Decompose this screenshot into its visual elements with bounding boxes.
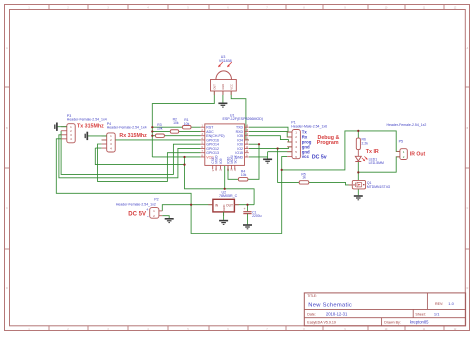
wire TXD to P1 Tx	[249, 127, 292, 132]
svg-text:+: +	[244, 207, 246, 211]
wire P3 pin4 to 5V node	[56, 139, 191, 205]
header P2 DC input	[116, 198, 162, 219]
svg-text:1.0: 1.0	[448, 301, 454, 306]
regulator U2	[208, 190, 239, 216]
wire 5V to P1 vcc pin	[282, 157, 287, 170]
wire P3 pin3 to GPIO12	[59, 135, 201, 178]
ESP module U1	[201, 124, 249, 171]
resistor R5	[299, 172, 309, 184]
svg-text:2.2k: 2.2k	[362, 142, 369, 146]
header P3 Tx module	[61, 114, 107, 143]
wire IO5 to P1 prog	[249, 136, 292, 142]
svg-text:Header-Male-2.54_1x6: Header-Male-2.54_1x6	[291, 124, 327, 128]
label Tx 315Mhz	[77, 123, 104, 129]
transistor Q1	[349, 180, 391, 189]
svg-text:IO9: IO9	[219, 158, 223, 163]
IR receiver U3 VS1838	[211, 71, 237, 95]
svg-text:VS1838: VS1838	[219, 59, 232, 63]
svg-text:1/1: 1/1	[434, 311, 440, 316]
svg-text:DC 5V: DC 5V	[128, 211, 146, 217]
wire P3 pin2 to GPIO14	[61, 131, 201, 175]
title block	[304, 293, 465, 326]
ground at P3 pin1	[55, 123, 57, 131]
wire R2 to ADC	[152, 130, 200, 132]
P1 net labels	[302, 130, 327, 161]
U1 right pin labels	[235, 126, 243, 160]
wire R6 top	[357, 131, 359, 138]
svg-text:GND: GND	[222, 205, 226, 211]
svg-text:Drawn By:: Drawn By:	[384, 321, 401, 325]
wire R3 to EN	[152, 135, 200, 137]
wire 5V loop to IR section	[191, 170, 282, 234]
svg-text:2200u: 2200u	[252, 214, 262, 218]
wire 5V rail to IR Out header	[282, 131, 400, 170]
wire P2 pin2 to ground	[162, 216, 169, 219]
svg-text:Header-Female-2.54_1x2: Header-Female-2.54_1x2	[387, 123, 427, 127]
wire VCC branch down to regulator output	[185, 157, 255, 205]
header P1 debug	[287, 121, 327, 159]
svg-text:2018-12-31: 2018-12-31	[326, 311, 348, 316]
U1 left pin labels	[206, 126, 224, 160]
svg-text:TITLE:: TITLE:	[307, 294, 317, 298]
wire P4 pin3 to GPIO13	[98, 144, 201, 181]
svg-text:OUT: OUT	[226, 204, 233, 208]
wire IO0 to R4	[248, 144, 259, 179]
wire LED cathode to drain node	[357, 161, 359, 172]
header P6 IR out	[387, 123, 427, 160]
wire R6 to LED anode	[357, 150, 359, 157]
label IR Out	[410, 151, 426, 157]
wire P4 pin4 to VCC branch	[95, 148, 184, 165]
svg-text:VCC: VCC	[230, 84, 234, 90]
wire P6 pin2 to drain node	[358, 157, 400, 172]
svg-text:Header-Female-2.54_1x4: Header-Female-2.54_1x4	[107, 126, 147, 130]
junction dots	[151, 126, 359, 206]
svg-text:krepton85: krepton85	[410, 320, 429, 325]
svg-text:New Schematic: New Schematic	[308, 302, 352, 308]
wire P1 gnd pins	[268, 152, 292, 159]
ground near P1	[263, 159, 272, 163]
resistor R1	[183, 118, 192, 129]
svg-text:Tx 315Mhz: Tx 315Mhz	[77, 123, 104, 129]
svg-text:GND: GND	[221, 84, 225, 90]
svg-text:DC 5v: DC 5v	[312, 154, 327, 160]
svg-text:P2: P2	[154, 198, 158, 202]
label Debug & Program	[317, 135, 340, 146]
svg-text:10k: 10k	[157, 126, 163, 130]
wire P4 pin2 to GPIO16	[102, 139, 201, 141]
ground at P4 pin1	[85, 132, 87, 140]
wire RXD to P1 Rx	[249, 131, 292, 137]
wire U3 OUT to IO4	[231, 91, 249, 140]
ground below U2	[219, 221, 228, 225]
wire P4 pin1 to ground	[88, 135, 107, 137]
wire drain node to Q1	[357, 172, 359, 180]
wire ESP bottom pin to VCC net	[224, 166, 226, 189]
wire U2 GND to ground	[223, 212, 225, 220]
resistor R4	[238, 170, 248, 181]
svg-text:EasyEDA V5.9.19: EasyEDA V5.9.19	[307, 321, 336, 325]
wire ESP GND to ground	[249, 156, 268, 158]
ground at P2	[165, 219, 174, 223]
svg-text:Program: Program	[317, 140, 339, 146]
svg-text:Rx 315Mhz: Rx 315Mhz	[119, 133, 147, 139]
svg-text:1k: 1k	[302, 176, 306, 180]
U1 designator	[223, 113, 264, 121]
svg-text:Date:: Date:	[307, 312, 316, 316]
svg-text:SCLK: SCLK	[233, 154, 237, 163]
ground below U3	[218, 103, 227, 107]
svg-text:P5: P5	[399, 140, 403, 144]
wire U2 OUT	[234, 204, 254, 206]
svg-text:Header-Female-2.54_1x2: Header-Female-2.54_1x2	[116, 202, 156, 206]
wire R1 to RST	[152, 126, 200, 128]
U3 IR arrows	[218, 62, 232, 67]
label Rx 315Mhz	[119, 133, 147, 139]
ground below Q1	[354, 196, 363, 200]
wire P3 pin1 to ground	[57, 126, 66, 128]
resistor R6	[356, 138, 368, 150]
svg-text:MTDMN1ST4G: MTDMN1ST4G	[367, 185, 391, 189]
wire U3 GND pin	[222, 91, 224, 103]
ground below C1	[243, 225, 252, 229]
header P4 Rx module	[102, 122, 147, 152]
wire VCC row	[152, 156, 200, 158]
svg-text:10k: 10k	[173, 121, 179, 125]
label DC 5V	[128, 207, 149, 220]
svg-text:OUT: OUT	[213, 84, 217, 90]
svg-text:IR Out: IR Out	[410, 151, 426, 157]
svg-text:LED-5MM: LED-5MM	[369, 161, 384, 165]
LED LED1	[355, 156, 384, 165]
svg-text:ESP-12F(ESP8266MOD): ESP-12F(ESP8266MOD)	[223, 117, 264, 121]
svg-text:78M05R_C: 78M05R_C	[219, 194, 238, 198]
svg-text:Tx IR: Tx IR	[366, 149, 379, 155]
capacitor C1	[243, 205, 261, 225]
svg-text:REV:: REV:	[435, 302, 443, 306]
wire DC5V input to U2 IN	[162, 205, 213, 211]
svg-text:10k: 10k	[241, 173, 247, 177]
svg-text:10k: 10k	[184, 122, 190, 126]
label Tx IR	[366, 149, 379, 155]
resistor R2	[170, 117, 179, 133]
resistor R3	[156, 123, 165, 138]
svg-text:Header-Female-2.54_1x4: Header-Female-2.54_1x4	[67, 118, 107, 122]
U3 designator	[219, 55, 232, 63]
U1 bottom pin labels	[211, 154, 237, 163]
wire R5 to Q1 gate	[309, 182, 353, 185]
svg-text:vcc: vcc	[302, 154, 310, 159]
wire 3V3 rail from U3 to pullups and VCC	[152, 91, 214, 157]
wire Q1 source to ground	[357, 189, 359, 195]
svg-text:Sheet:: Sheet:	[415, 312, 425, 316]
wire R4 to ESP bottom pin	[228, 166, 238, 179]
wire IO2 to R5 and P1 pin4	[249, 147, 299, 183]
